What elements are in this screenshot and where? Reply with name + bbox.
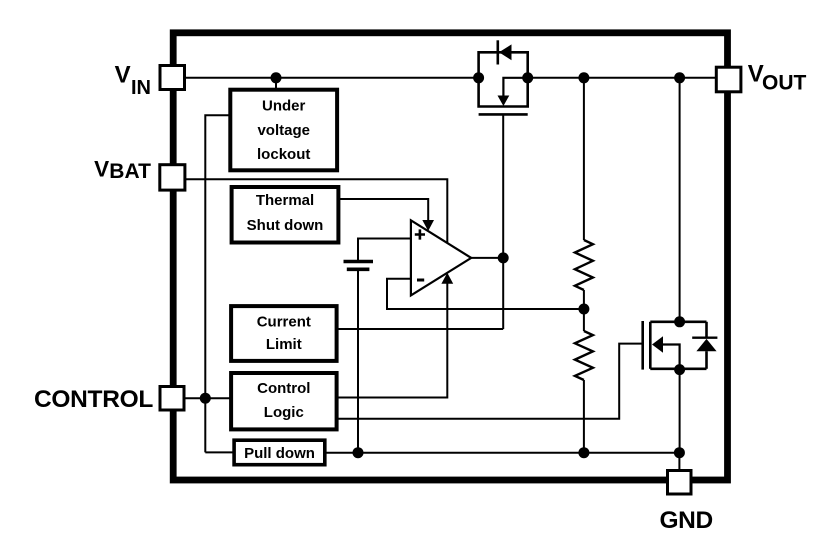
svg-text:V: V	[115, 62, 131, 89]
wire Control Logic output to Q2 gate	[337, 344, 643, 419]
transistor Q2 body arrow	[652, 336, 663, 353]
wire CONTROL pin to Control Logic	[184, 397, 231, 399]
wire stub from VIN rail to UVLO block	[275, 78, 277, 91]
svg-text:BAT: BAT	[109, 160, 151, 183]
wire UVLO to CONTROL net	[205, 115, 231, 452]
junction dot Q2 drain rail	[674, 72, 685, 83]
wire capacitor bottom lead	[357, 269, 359, 452]
body diode D2 triangle	[696, 339, 716, 351]
junction dot op-amp output	[498, 252, 509, 263]
svg-text:Shut down: Shut down	[247, 217, 324, 234]
wire Pull down output ground rail	[325, 452, 680, 454]
pass transistor Q1 arrow	[498, 96, 510, 107]
svg-text:Limit: Limit	[266, 336, 302, 353]
body diode D2 right leg bottom	[705, 351, 708, 369]
pass transistor Q1 gate plate	[479, 113, 528, 116]
junction dot divider tap	[578, 304, 589, 315]
svg-text:GND: GND	[660, 507, 713, 534]
pin GND	[668, 471, 692, 495]
transistor Q2 top arm	[650, 320, 706, 323]
svg-text:Under: Under	[262, 98, 306, 115]
svg-text:CONTROL: CONTROL	[34, 386, 153, 413]
wire VOUT rail	[528, 77, 717, 79]
junction dot GND rail	[674, 447, 685, 458]
arrowhead into op-amp top edge	[422, 220, 434, 231]
wire Thermal Shutdown output to op-amp	[338, 199, 428, 222]
svg-text:Control: Control	[257, 380, 310, 397]
wire VBAT to op-amp supply	[185, 179, 447, 242]
transistor Q2 gate bar	[641, 321, 644, 370]
wire Q2 drain to VOUT rail	[679, 78, 681, 322]
wire Control Logic output to op-amp enable	[337, 282, 448, 398]
junction dot capacitor-ground rail	[353, 447, 364, 458]
svg-text:voltage: voltage	[257, 122, 310, 139]
svg-text:V: V	[94, 156, 109, 181]
svg-text:Pull down: Pull down	[244, 445, 315, 462]
transistor Q2 bottom arm	[650, 367, 706, 370]
junction dot divider top	[578, 72, 589, 83]
block Thermal Shut down	[232, 187, 339, 243]
junction dot Q1 drain	[473, 72, 484, 83]
pin VOUT	[716, 67, 741, 92]
wire Q2 source to ground rail	[679, 370, 681, 453]
wire R1 top lead	[583, 78, 585, 240]
block Pull down	[234, 440, 325, 465]
body diode D2 cathode bar	[692, 337, 717, 339]
block Current Limit	[231, 306, 337, 361]
wire op-amp minus feedback to divider tap	[387, 279, 584, 309]
op-amp minus input label	[417, 279, 424, 282]
svg-text:OUT: OUT	[762, 71, 807, 94]
svg-text:lockout: lockout	[257, 146, 310, 163]
outer IC boundary	[173, 33, 727, 480]
pin CONTROL	[160, 387, 184, 411]
pass transistor Q1 body top	[479, 52, 528, 78]
capacitor C1 top plate	[344, 260, 374, 264]
junction dot Q1 source	[522, 72, 533, 83]
svg-text:IN: IN	[131, 77, 151, 99]
svg-text:Logic: Logic	[264, 404, 304, 421]
pin VBAT	[160, 165, 185, 190]
wire between R1 and R2	[583, 290, 585, 331]
body diode D1 triangle	[499, 44, 512, 60]
wire Current Limit to gate node	[337, 328, 504, 330]
wire GND pin lead	[678, 453, 680, 471]
block Control Logic	[231, 373, 337, 429]
svg-text:Thermal: Thermal	[256, 192, 314, 209]
body diode D1 cathode bar	[496, 40, 499, 64]
transistor Q2 source-body arm	[662, 345, 680, 369]
transistor Q2 channel bar	[649, 322, 652, 369]
capacitor C1 bottom plate	[347, 267, 370, 271]
wire gate node vertical	[502, 114, 504, 329]
block Under voltage lockout	[230, 90, 337, 171]
junction dot R2-ground rail	[578, 447, 589, 458]
body diode D2 right leg top	[705, 322, 708, 338]
wire R2 bottom lead	[583, 380, 585, 453]
junction dot CONTROL	[200, 393, 211, 404]
pin VIN	[160, 66, 185, 90]
op-amp U1 error amplifier	[411, 220, 471, 295]
pass transistor Q1 internal source arm	[503, 78, 527, 97]
op-amp plus input label	[415, 229, 425, 239]
resistor R1	[575, 240, 593, 290]
wire CONTROL net to Pull down input	[205, 451, 234, 453]
pass transistor Q1 body bottom	[479, 78, 528, 107]
wire op-amp output to gate node	[471, 257, 503, 259]
wire capacitor top lead to op-amp plus input	[358, 239, 411, 262]
resistor R2	[575, 331, 593, 380]
wire VIN rail	[185, 77, 479, 79]
junction dot Q2 drain	[674, 316, 685, 327]
arrowhead into op-amp bottom edge	[441, 273, 453, 284]
junction dot Q2 source	[674, 364, 685, 375]
junction dot VIN-UVLO	[271, 72, 282, 83]
svg-text:Current: Current	[257, 313, 311, 330]
